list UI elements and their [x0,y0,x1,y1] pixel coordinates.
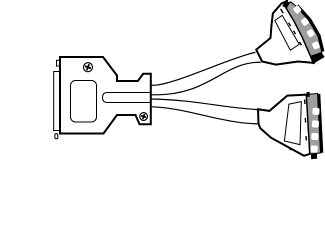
upper cable branch bottom edge [151,62,261,95]
lower cable branch top edge [151,99,258,110]
bottom-right connector pin-face strip [307,92,322,159]
flange bottom stud [55,134,58,139]
pin hole 1 [293,5,302,14]
bottom-right hood seam dash a [304,100,306,105]
bottom-right hood seam dash b [304,118,306,123]
hood clamp screw [139,112,149,122]
strip bottom end cap [311,153,317,159]
bottom-right connector hood [258,95,310,156]
strip bottom end cap [311,52,325,63]
top-right hood seam dash a [281,9,284,13]
lower cable branch bottom edge [151,107,258,124]
hood inner recess (rounded rect) [71,81,97,123]
pin hole 1 [312,108,319,115]
top-right hood seam dash d [300,42,302,45]
left connector hood outline [60,57,151,134]
top-right hood recess outline [275,15,300,50]
hood top screw [82,61,94,73]
top-right connector hood [256,1,313,65]
bottom-right hood seam dash d [289,147,291,150]
strip top end cap [307,92,310,97]
pin hole 3 [306,29,315,38]
top-right connector pin-face strip [282,1,324,64]
pin hole 4 [311,145,318,152]
pin hole 3 [311,133,318,140]
bottom-right hood recess outline [284,102,301,145]
bottom-right hood seam dash c [305,136,307,141]
top-right hood seam dash b [289,23,291,26]
flange top stud [57,60,60,66]
cable boot inside hood [103,93,151,103]
strip top end cap [282,1,290,8]
pin hole 2 [312,120,319,127]
upper cable branch top edge [151,52,256,85]
top-right hood seam dash c [294,31,296,34]
pin hole 2 [300,17,309,26]
pin hole 4 [312,41,321,50]
left DB25 connector flange (side view) [54,72,60,131]
